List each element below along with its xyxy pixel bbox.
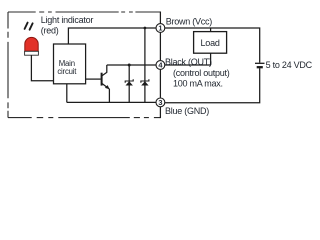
svg-text:100 mA max.: 100 mA max.	[173, 78, 223, 88]
svg-text:1: 1	[158, 24, 162, 33]
transistor Q1 (NPN)	[86, 65, 110, 102]
collector	[102, 65, 107, 76]
pin 3 terminal	[156, 98, 165, 107]
wire: main circuit bottom lead to GND rail	[66, 84, 68, 103]
svg-text:Brown (Vcc): Brown (Vcc)	[166, 17, 213, 27]
base bar	[101, 73, 103, 86]
emitter arrowhead	[105, 85, 110, 89]
load box	[194, 32, 227, 54]
wire: load bottom lead	[210, 53, 212, 65]
svg-text:circuit: circuit	[57, 67, 77, 76]
sensor enclosure dashed border (left)	[7, 12, 9, 118]
battery BT1	[255, 63, 265, 67]
sensor enclosure right edge segment (pin 3 to bottom corner)	[159, 107, 161, 118]
wire: battery - down to GND rail	[165, 68, 260, 102]
zener diode ZD1 (OUT to GND)	[125, 64, 133, 103]
positive plate (long)	[255, 62, 265, 64]
pin 1 terminal	[156, 24, 165, 33]
zener diode ZD2 (Vcc to GND, crosses OUT rail)	[141, 27, 149, 103]
main circuit box U1	[54, 44, 86, 84]
pin 4 terminal	[156, 61, 165, 70]
svg-text:Black (OUT): Black (OUT)	[165, 57, 212, 67]
sensor enclosure dashed border (top)	[8, 11, 161, 13]
svg-text:3: 3	[158, 98, 162, 107]
wire: LED cathode down and right into main circuit	[31, 55, 53, 80]
sensor enclosure right edge segment (pin 4 to pin 3)	[159, 70, 161, 98]
wire	[144, 28, 146, 102]
base wire	[86, 78, 101, 80]
sensor enclosure right edge segment (top corner to pin 1)	[159, 12, 161, 24]
anode triangle	[141, 81, 148, 85]
svg-text:(control output): (control output)	[173, 68, 230, 78]
svg-text:Blue (GND): Blue (GND)	[165, 106, 209, 116]
sensor enclosure right edge segment (pin 1 to pin 4)	[159, 33, 161, 61]
light rays (two slashes)	[25, 23, 33, 30]
svg-text:(red): (red)	[41, 25, 59, 35]
wire	[128, 65, 130, 102]
wire: load top lead	[210, 28, 212, 32]
emitter	[102, 84, 109, 103]
junction dot on OUT rail	[128, 64, 131, 67]
sensor enclosure dashed border (bottom)	[8, 117, 160, 119]
wire: OUT rail from collector to pin 4	[107, 64, 156, 66]
wire: Vcc from pin 1 to battery +	[165, 28, 260, 63]
wire: Vcc rail from main circuit top corner to pin 1	[68, 28, 155, 44]
wire: internal GND rail to pin 3	[67, 101, 156, 103]
svg-text:Light indicator: Light indicator	[41, 15, 94, 25]
cathode bar with zener bends	[141, 79, 149, 82]
anode triangle	[126, 81, 133, 85]
svg-text:5 to 24 VDC: 5 to 24 VDC	[266, 60, 313, 70]
negative plate (short thick)	[257, 66, 263, 68]
svg-text:Load: Load	[200, 38, 219, 48]
cathode bar with zener bends	[125, 79, 133, 82]
junction dot on Vcc rail	[144, 27, 147, 30]
wire: OUT from pin 4 to load	[165, 64, 211, 66]
LED D1 (light indicator, red)	[25, 37, 39, 55]
